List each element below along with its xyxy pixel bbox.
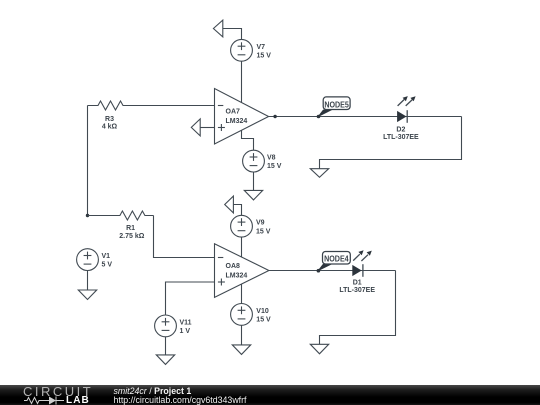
V1 value label <box>102 253 113 269</box>
voltage source V9 <box>231 215 253 237</box>
voltage source V11 <box>155 315 177 337</box>
V7 value label <box>257 44 272 60</box>
ground GND-V11 <box>156 355 174 365</box>
wire D1 return loop <box>320 271 396 345</box>
svg-text:V10: V10 <box>256 308 269 315</box>
svg-text:D1: D1 <box>353 280 362 287</box>
svg-text:V9: V9 <box>256 220 265 227</box>
svg-text:LM324: LM324 <box>226 273 248 280</box>
LED D1 <box>352 250 372 277</box>
svg-text:OA7: OA7 <box>226 109 241 116</box>
footer url text <box>114 395 247 405</box>
wire V9 to OA8 V+ <box>241 237 243 257</box>
wire V11 to ground <box>165 337 167 355</box>
D2 value label <box>383 127 419 142</box>
wire V10 to ground <box>241 325 243 345</box>
ground GND-D2 <box>310 169 328 178</box>
svg-text:4 kΩ: 4 kΩ <box>102 123 118 130</box>
wire left vertical (R3 to node) <box>87 106 89 216</box>
svg-text:V7: V7 <box>257 44 266 51</box>
svg-text:LTL-307EE: LTL-307EE <box>339 287 375 294</box>
V9 value label <box>256 220 271 236</box>
V8 value label <box>267 155 282 171</box>
ground GND-V7 (rotated left) <box>213 20 241 39</box>
R3 value label <box>102 116 118 130</box>
voltage source V1 <box>77 249 99 271</box>
wire OA7 output <box>269 116 462 118</box>
voltage source V7 <box>231 39 253 61</box>
junction node A <box>86 214 89 217</box>
svg-text:D2: D2 <box>396 127 405 134</box>
svg-text:LM324: LM324 <box>226 118 248 125</box>
svg-text:R1: R1 <box>126 225 135 232</box>
D1 value label <box>339 280 375 295</box>
svg-text:15 V: 15 V <box>267 163 282 170</box>
wire V7 to OA7 V+ <box>241 61 243 102</box>
wire V1 to ground <box>87 271 89 291</box>
CircuitLab logo <box>23 384 93 399</box>
svg-text:15 V: 15 V <box>256 317 271 324</box>
svg-text:NODE4: NODE4 <box>324 254 349 263</box>
svg-text:LTL-307EE: LTL-307EE <box>383 134 419 141</box>
node NODE5 flag <box>317 97 350 118</box>
wire OA8 output <box>269 270 396 272</box>
ground GND-D1 <box>310 344 328 354</box>
svg-text:OA8: OA8 <box>226 263 241 270</box>
footer project text <box>114 386 192 396</box>
wire OA8 + input to V11 <box>166 282 215 315</box>
junction dot <box>273 115 276 118</box>
op-amp OA7 <box>215 89 269 145</box>
svg-text:V1: V1 <box>102 253 111 260</box>
R1 value label <box>119 225 144 240</box>
wire V8 to ground <box>253 172 255 190</box>
node NODE4 flag <box>317 252 351 273</box>
wire OA7 V- jog to V8 <box>242 130 254 150</box>
resistor R3 <box>88 101 215 110</box>
svg-text:15 V: 15 V <box>257 52 272 59</box>
op-amp OA8 <box>215 244 269 298</box>
voltage source V10 <box>231 304 253 326</box>
svg-text:1 V: 1 V <box>180 328 191 335</box>
ground GND-OA7+ (rotated left) <box>191 119 214 136</box>
svg-text:2.75 kΩ: 2.75 kΩ <box>119 233 144 240</box>
svg-text:V11: V11 <box>180 319 192 326</box>
ground GND-V9 (rotated left) <box>225 196 242 216</box>
LED D2 <box>397 96 416 123</box>
svg-text:R3: R3 <box>105 116 114 123</box>
ground GND-V8 <box>244 190 262 200</box>
V10 value label <box>256 308 271 324</box>
footer watermark bar <box>0 385 540 405</box>
resistor R1 <box>88 211 215 258</box>
OA7 label <box>226 109 248 126</box>
V11 value label <box>180 319 192 335</box>
svg-text:15 V: 15 V <box>256 228 271 235</box>
ground GND-V1 <box>78 290 96 300</box>
wire D2 return loop <box>320 117 462 169</box>
svg-text:5 V: 5 V <box>102 262 113 269</box>
voltage source V8 <box>243 150 265 172</box>
OA8 label <box>226 263 248 280</box>
svg-text:NODE5: NODE5 <box>324 100 349 109</box>
ground GND-V10 <box>232 345 250 355</box>
wire OA8 V- to V10 <box>241 284 243 304</box>
svg-text:V8: V8 <box>267 155 276 162</box>
